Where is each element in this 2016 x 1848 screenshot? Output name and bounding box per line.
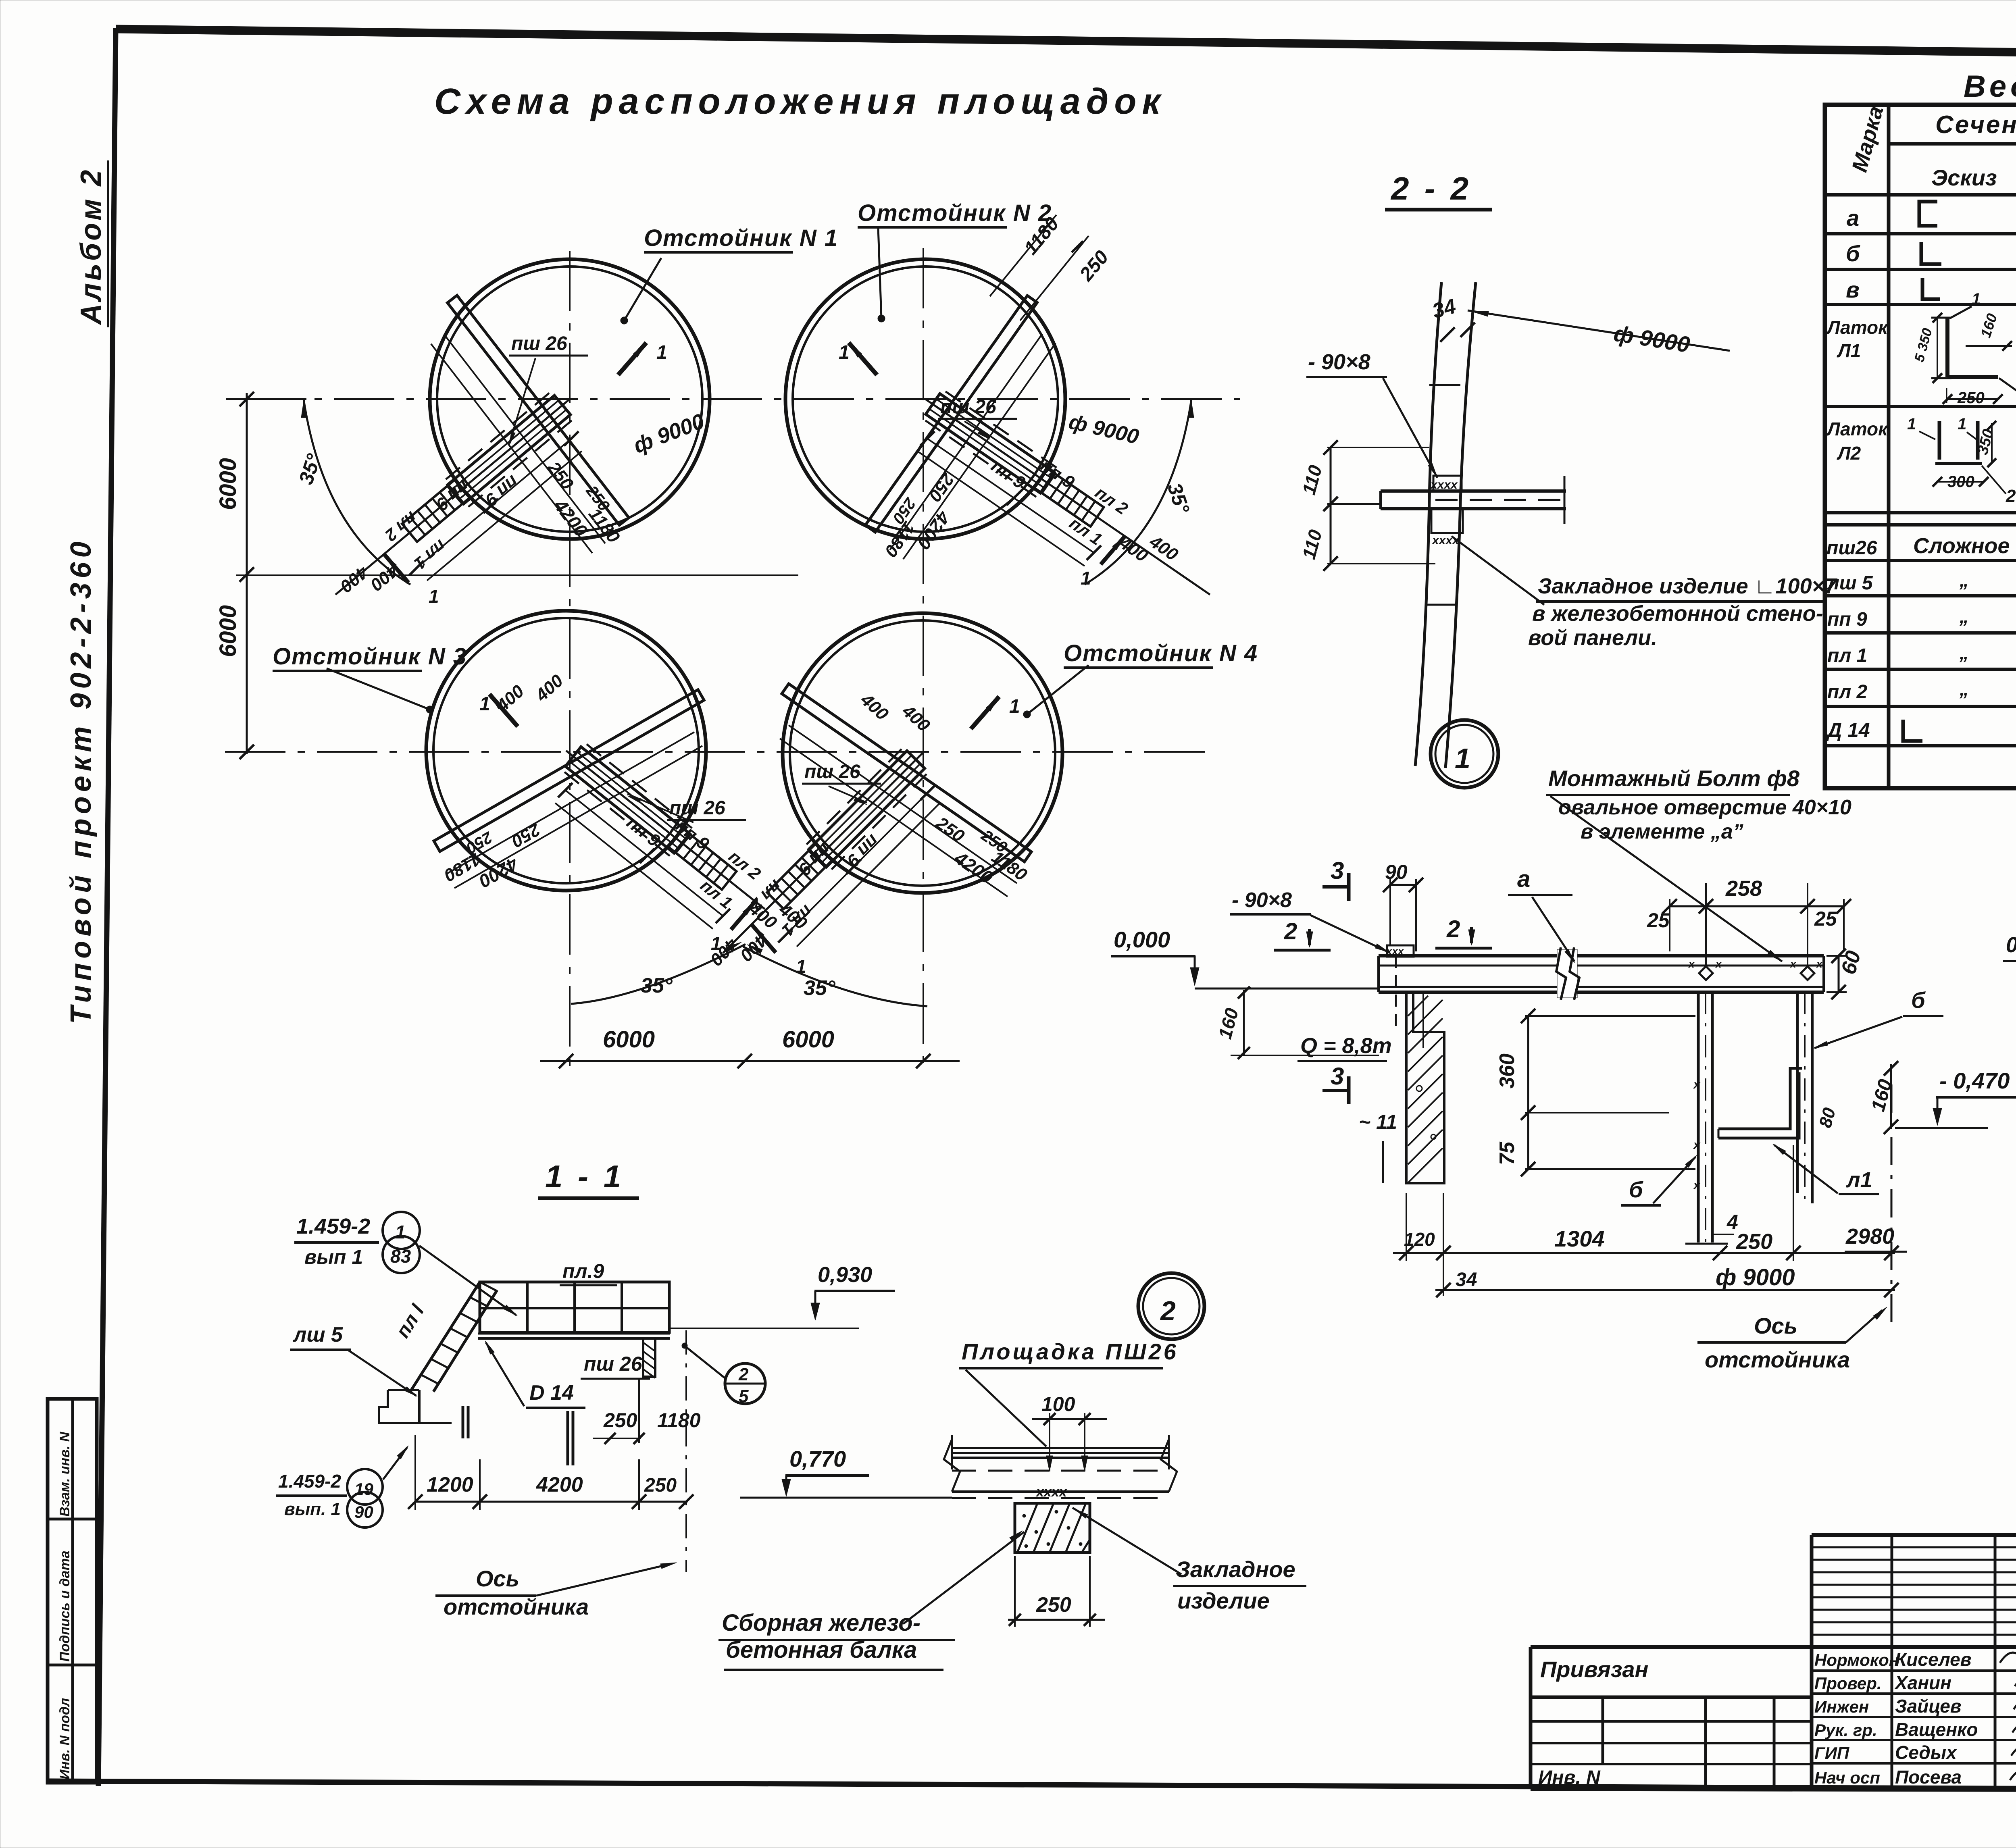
svg-text:x: x (1693, 1078, 1701, 1091)
svg-text:Ведомость элементов: Ведомость элементов (1964, 69, 2016, 104)
svg-text:вып. 1: вып. 1 (284, 1499, 341, 1519)
tank 3 section arrow 1 outer (731, 901, 755, 930)
svg-text:3: 3 (1331, 857, 1344, 884)
tank 4 section arrow 1 near center (971, 697, 999, 729)
tank 1 section arrow 1 near center (618, 343, 646, 375)
tank 4 dimension lines along ladder (785, 793, 928, 935)
section 2-2 embedded plate hatch (1433, 476, 1462, 491)
svg-text:пп 9: пп 9 (1827, 609, 1867, 630)
svg-text:Отстойник N 4: Отстойник N 4 (1064, 640, 1258, 666)
svg-text:250: 250 (603, 1409, 637, 1432)
svg-text:35°: 35° (804, 976, 836, 1000)
svg-text:6000: 6000 (215, 458, 241, 510)
svg-text:0,930: 0,930 (818, 1263, 872, 1287)
node 1 beam element a (1379, 954, 1824, 957)
svg-text:1.459-2: 1.459-2 (278, 1471, 341, 1492)
svg-text:Сложное: Сложное (1913, 534, 2010, 558)
settling tank 3 inner wall circle (433, 618, 699, 883)
section 2-2 dims 110 110 (1330, 447, 1332, 564)
svg-text:2: 2 (1284, 918, 1297, 945)
section 1-1 stair base support (379, 1390, 452, 1423)
svg-text:Эскиз: Эскиз (1931, 165, 1997, 190)
svg-text:Л1: Л1 (1837, 340, 1861, 361)
svg-text:овальное отверстие 40×10: овальное отверстие 40×10 (1558, 796, 1851, 819)
svg-text:x: x (1715, 958, 1722, 970)
section 2-2 wall curved panel (1445, 282, 1476, 768)
tank 2 dimension lines along bridge (890, 334, 1042, 550)
title block outer lines (1812, 1533, 2016, 1537)
node 1 dims 90 258 25 25 60 (1389, 879, 1391, 945)
node 2 deck plate lines (952, 1447, 1169, 1449)
svg-text:Посева: Посева (1895, 1767, 1962, 1788)
tank 1 pp9 dashed edge lines (444, 393, 549, 481)
svg-text:Л2: Л2 (1837, 443, 1861, 464)
svg-text:1: 1 (1009, 696, 1020, 717)
svg-text:x: x (1693, 1179, 1701, 1192)
svg-text:в: в (1846, 277, 1860, 302)
svg-text:отстойника: отстойника (1705, 1347, 1850, 1372)
svg-text:Схема расположения площадок: Схема расположения площадок (434, 81, 1166, 122)
svg-text:1: 1 (479, 693, 490, 715)
section 2-2 beam (1381, 489, 1566, 493)
svg-text:Ващенко: Ващенко (1895, 1719, 1978, 1740)
svg-text:Д 14: Д 14 (1826, 719, 1870, 741)
tank 4 stair flight hatched (767, 844, 832, 909)
tank 4 walkway bridge strip (782, 684, 1031, 862)
svg-text:xxxx: xxxx (1431, 534, 1460, 547)
svg-text:90: 90 (1385, 861, 1408, 883)
svg-text:Ось: Ось (1754, 1313, 1797, 1338)
svg-text:90: 90 (354, 1503, 373, 1521)
svg-text:лш 5: лш 5 (292, 1323, 343, 1346)
svg-text:Седых: Седых (1895, 1742, 1958, 1763)
svg-text:- 90×8: - 90×8 (1308, 350, 1370, 374)
node 2 concrete beam hatched (1015, 1503, 1090, 1552)
svg-text:x: x (1789, 958, 1797, 970)
svg-text:отстойника: отстойника (444, 1594, 589, 1619)
section 1-1 column under deck (462, 1406, 464, 1438)
tank 3 platform psh26 strip (565, 747, 689, 853)
margin stamp boxes (48, 1399, 97, 1783)
svg-text:xxx: xxx (1385, 945, 1404, 957)
svg-text:„: „ (1959, 642, 1969, 663)
svg-text:34: 34 (1456, 1269, 1477, 1290)
title block signature rows (1812, 1669, 2016, 1672)
svg-text:1304: 1304 (1554, 1226, 1605, 1251)
svg-text:1: 1 (1958, 415, 1966, 433)
section 2-2 dia 9000 leader (1468, 310, 1730, 351)
svg-text:4: 4 (1727, 1211, 1738, 1233)
tank 1 35 degree arc (304, 399, 410, 585)
tank 1 dimension lines along ladder (417, 439, 571, 568)
svg-text:пл.9: пл.9 (562, 1260, 604, 1282)
svg-text:3: 3 (1331, 1063, 1344, 1090)
vedomost table header lines (1889, 142, 2016, 146)
svg-text:Сечение: Сечение (1935, 111, 2016, 139)
svg-text:Латок: Латок (1826, 418, 1889, 439)
settling tank 2 inner wall circle (793, 266, 1058, 532)
svg-text:0,000: 0,000 (1114, 927, 1170, 952)
section 1-1 lower dim chain (415, 1501, 687, 1503)
svg-text:Киселев: Киселев (1895, 1649, 1971, 1670)
svg-text:D 14: D 14 (529, 1381, 574, 1405)
svg-text:1180: 1180 (657, 1409, 701, 1432)
svg-text:120: 120 (1404, 1229, 1435, 1250)
svg-text:258: 258 (1725, 876, 1762, 901)
svg-text:Отстойник N 2: Отстойник N 2 (858, 200, 1052, 226)
svg-text:пш 26: пш 26 (584, 1353, 643, 1375)
svg-text:xxxx: xxxx (1035, 1484, 1068, 1500)
svg-text:Латок: Латок (1826, 317, 1889, 338)
node 1 bolt symbols (1699, 966, 1713, 980)
tank 4 dimension lines along bridge (789, 725, 1017, 883)
node 1 dim 160 80 right (1890, 1064, 1892, 1129)
svg-text:Ось: Ось (476, 1566, 519, 1591)
tank 2 platform psh26 strip (926, 393, 1054, 493)
vedomost table column lines (1887, 105, 1891, 788)
tank 2 section arrow 1 near center (849, 343, 877, 375)
svg-text:пш26: пш26 (1826, 537, 1877, 559)
svg-text:Типовой проект 902-2-360: Типовой проект 902-2-360 (65, 537, 97, 1024)
svg-text:Отстойник N 3: Отстойник N 3 (273, 643, 467, 670)
svg-text:xxxx: xxxx (1430, 478, 1458, 491)
settling tank 2 outer wall circle (785, 259, 1065, 539)
title block signature grid columns (1891, 1535, 1893, 1789)
svg-text:0,000: 0,000 (2006, 933, 2016, 957)
svg-text:2: 2 (738, 1365, 749, 1384)
svg-text:изделие: изделие (1177, 1588, 1270, 1613)
settling tank 1 inner wall circle (437, 266, 702, 532)
node 1 dim fi 9000 (1435, 1289, 1895, 1291)
svg-text:2: 2 (2006, 486, 2016, 506)
node 1 dim 360 75 (1527, 1016, 1529, 1169)
svg-text:Альбом 2: Альбом 2 (75, 168, 107, 325)
svg-text:x: x (1816, 958, 1823, 970)
svg-text:250: 250 (1036, 1593, 1071, 1617)
svg-text:Рук. гр.: Рук. гр. (1814, 1721, 1877, 1740)
title block signature grid upper rows (1812, 1546, 2016, 1548)
svg-text:Взам. инв. N: Взам. инв. N (57, 1431, 73, 1517)
tank 2 section arrow 1 outer (1101, 536, 1125, 564)
tank 1 stair flight hatched (402, 480, 470, 542)
tank 3 ladder axis line (566, 751, 765, 909)
tank 3 walkway bridge strip (434, 690, 704, 851)
svg-text:Сборная железо-: Сборная железо- (722, 1610, 921, 1636)
svg-text:2 - 2: 2 - 2 (1390, 171, 1472, 206)
svg-text:Инжен: Инжен (1814, 1697, 1869, 1716)
settling tank 4 outer wall circle (783, 613, 1062, 893)
tank 3 dimension lines along ladder (565, 790, 723, 916)
svg-text:25: 25 (1814, 907, 1837, 930)
tank 2 stair flight hatched (1034, 468, 1104, 527)
section 1-1 bracket psh26 (643, 1338, 655, 1377)
svg-text:1: 1 (429, 586, 439, 607)
svg-text:2: 2 (1160, 1296, 1176, 1326)
svg-text:25: 25 (1647, 909, 1670, 932)
svg-text:Зайцев: Зайцев (1895, 1696, 1962, 1717)
svg-text:а: а (1517, 866, 1530, 892)
tank 4 35 degree arc (743, 947, 927, 1006)
tank 4 section arrow 1 outer (752, 924, 776, 953)
svg-text:Нач осп: Нач осп (1814, 1768, 1880, 1787)
tank 2 pp9 dashed edge lines (946, 391, 1058, 469)
svg-text:19: 19 (354, 1480, 373, 1498)
svg-text:x: x (1688, 958, 1695, 970)
node 2 label zakladnoe izdelie (1073, 1508, 1181, 1574)
svg-text:6000: 6000 (215, 605, 241, 657)
node 1 beam break symbol (1557, 949, 1577, 998)
horizontal dimension line 6000 6000 bottom (540, 1060, 960, 1062)
svg-text:Монтажный Болт ф8: Монтажный Болт ф8 (1548, 766, 1800, 791)
svg-text:а: а (1847, 205, 1859, 231)
tank 1 walkway bridge strip (448, 296, 629, 525)
svg-text:в элементе „а”: в элементе „а” (1581, 820, 1743, 843)
svg-text:б: б (1629, 1177, 1643, 1202)
tank 3 section arrow 1 near center (489, 694, 518, 726)
svg-text:300: 300 (1947, 473, 1974, 491)
node 1 right hanger b dashed (1796, 992, 1799, 1193)
svg-text:1: 1 (395, 1222, 406, 1242)
node 1 tank axis line (1891, 1084, 1893, 1324)
svg-text:Закладное изделие ∟100×7: Закладное изделие ∟100×7 (1538, 574, 1838, 598)
vertical axis line tanks 2-4 (923, 248, 924, 1072)
svg-text:2980: 2980 (1845, 1224, 1894, 1249)
svg-text:250: 250 (1736, 1230, 1772, 1254)
svg-text:пш 26: пш 26 (804, 761, 860, 782)
svg-text:250: 250 (644, 1475, 677, 1496)
svg-text:ГИП: ГИП (1814, 1744, 1849, 1763)
svg-text:35°: 35° (641, 974, 673, 997)
vertical dimension line 6000 6000 left (246, 393, 248, 754)
svg-text:- 90×8: - 90×8 (1232, 889, 1292, 912)
vertical axis line tanks 1-3 (569, 251, 571, 1072)
tank 1 dimension lines along bridge (444, 334, 605, 543)
node 1 bottom dim chain (1393, 1252, 1895, 1254)
tank 4 ladder axis line (723, 753, 923, 953)
tank 1 section arrow 1 outer (384, 554, 408, 583)
svg-text:в железобетонной стено-: в железобетонной стено- (1532, 601, 1823, 626)
node 1 left dashed anchor (1395, 956, 1397, 1032)
svg-text:пл 1: пл 1 (1827, 645, 1867, 666)
svg-text:„: „ (1959, 678, 1969, 699)
tank 2 35 degree arc (1085, 399, 1191, 585)
svg-text:100: 100 (1041, 1393, 1075, 1415)
svg-text:Провер.: Провер. (1814, 1674, 1882, 1693)
svg-text:вой панели.: вой панели. (1528, 626, 1657, 650)
node 2 label sbornaya balka (903, 1532, 1024, 1624)
svg-text:вып 1: вып 1 (304, 1246, 363, 1268)
node 1 left anchor plate hatched (1387, 945, 1414, 957)
section 1-1 deck grid (480, 1282, 669, 1332)
svg-text:6000: 6000 (603, 1026, 655, 1053)
svg-text:„: „ (1959, 606, 1969, 627)
svg-text:Подпись и дата: Подпись и дата (57, 1550, 73, 1662)
tank 3 stair flight hatched (668, 828, 736, 889)
node 2 marker circle (1138, 1273, 1204, 1339)
svg-text:360: 360 (1495, 1053, 1519, 1088)
settling tank 4 inner wall circle (790, 620, 1055, 886)
svg-text:Инв. N подл: Инв. N подл (57, 1698, 73, 1779)
section 1-1 node circle 2/5 (725, 1363, 765, 1404)
svg-text:Q = 8,8т: Q = 8,8т (1300, 1034, 1392, 1058)
tank 1 platform psh26 strip (448, 395, 570, 504)
tank 4 pp9 dashed edge lines (805, 749, 902, 846)
svg-text:1: 1 (1455, 743, 1470, 774)
node 1 left wall concrete (1406, 992, 1444, 1183)
node 2 deck break marks (944, 1439, 960, 1492)
svg-text:1200: 1200 (427, 1473, 473, 1496)
horizontal axis line tanks 1-2 (242, 398, 1240, 400)
svg-text:Отстойник N 1: Отстойник N 1 (644, 225, 838, 251)
vedomost table outer border (1825, 105, 2016, 788)
section 1-1 axis dashdot (685, 1330, 687, 1572)
sheet frame bottom border (47, 1781, 2016, 1791)
svg-text:1: 1 (1907, 415, 1916, 433)
svg-text:1: 1 (839, 342, 850, 363)
svg-text:1 - 1: 1 - 1 (545, 1159, 624, 1194)
node 1 strut b vertical (1697, 992, 1700, 1242)
svg-text:75: 75 (1495, 1141, 1519, 1165)
node 1 left dim 160 (1243, 990, 1245, 1055)
svg-text:б: б (1911, 987, 1926, 1013)
svg-text:лш 5: лш 5 (1826, 572, 1873, 594)
vedomost table row lines (1825, 232, 2016, 235)
svg-text:Нормокон: Нормокон (1814, 1650, 1899, 1669)
svg-text:~ 11: ~ 11 (1359, 1111, 1397, 1133)
svg-text:5: 5 (739, 1386, 749, 1406)
node 1 marker circle (1431, 720, 1498, 788)
svg-text:Площадка ПШ26: Площадка ПШ26 (962, 1339, 1179, 1364)
tank 2 walkway bridge strip (865, 296, 1037, 532)
sheet frame left border (98, 28, 116, 1786)
svg-text:Привязан: Привязан (1540, 1657, 1648, 1682)
svg-text:- 0,470: - 0,470 (1939, 1068, 2010, 1093)
section 2-2 note zakladnoe izdelie (1452, 536, 1544, 605)
sheet frame top border (116, 29, 2016, 60)
svg-text:6000: 6000 (782, 1026, 834, 1053)
svg-text:бетонная балка: бетонная балка (726, 1637, 917, 1663)
tank 2 dimension lines along ladder (927, 439, 1094, 553)
tank 3 35 degree arc (571, 944, 746, 1004)
node 1 channel L1 (1718, 1068, 1802, 1129)
svg-text:1: 1 (656, 342, 667, 363)
tank 4 platform psh26 strip (809, 751, 925, 867)
tank 2 ladder axis line (925, 399, 1210, 595)
svg-text:Ханин: Ханин (1894, 1672, 1951, 1693)
settling tank 3 outer wall circle (426, 611, 706, 891)
svg-text:250: 250 (1957, 389, 1985, 407)
svg-text:1: 1 (1972, 290, 1981, 308)
svg-text:x: x (1693, 1138, 1701, 1152)
svg-text:2: 2 (1446, 916, 1460, 943)
horizontal axis line tanks 3-4 (225, 751, 1210, 753)
settling tank 1 outer wall circle (430, 259, 710, 539)
svg-text:„: „ (1959, 570, 1969, 591)
svg-text:пш 26: пш 26 (511, 333, 567, 354)
svg-text:Инв. N: Инв. N (1538, 1767, 1601, 1788)
svg-text:ф 9000: ф 9000 (1716, 1264, 1795, 1290)
svg-text:л1: л1 (1845, 1168, 1872, 1192)
svg-text:4200: 4200 (536, 1473, 583, 1496)
tank 1 ladder axis line (335, 399, 570, 595)
section 1-1 stair stringer (411, 1282, 480, 1390)
svg-text:1.459-2: 1.459-2 (296, 1214, 370, 1238)
svg-text:б: б (1846, 241, 1860, 266)
tank 3 pp9 dashed edge lines (587, 744, 694, 830)
svg-text:Закладное: Закладное (1176, 1557, 1295, 1582)
svg-text:0,770: 0,770 (789, 1446, 846, 1471)
node 1 strut base tick (1685, 1243, 1728, 1245)
svg-text:83: 83 (390, 1246, 411, 1267)
svg-text:пл 2: пл 2 (1827, 681, 1868, 703)
tank 3 dimension lines along bridge (446, 732, 694, 874)
svg-text:1: 1 (1081, 568, 1091, 589)
